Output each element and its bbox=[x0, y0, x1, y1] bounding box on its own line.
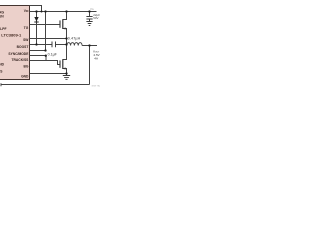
svg-text:PLLLPF: PLLLPF bbox=[0, 27, 6, 31]
transistor M2 source arrow bbox=[63, 67, 65, 69]
svg-text:RUN: RUN bbox=[0, 15, 4, 19]
capacitor CIN lead bbox=[89, 12, 91, 22]
svg-text:SW: SW bbox=[23, 38, 29, 42]
svg-text:BOOST: BOOST bbox=[17, 45, 29, 49]
svg-text:TG: TG bbox=[24, 26, 29, 30]
svg-text:SGND: SGND bbox=[0, 62, 5, 66]
wire M2 source to ground bbox=[63, 69, 67, 76]
wire bottom rail left end tick bbox=[0, 83, 2, 86]
svg-text:VIN: VIN bbox=[90, 7, 94, 11]
wire VIN pin to rail bbox=[30, 11, 37, 13]
wire TRACK/SS pin bbox=[30, 55, 47, 57]
transistor M1 channel bar bbox=[62, 19, 64, 29]
wire switch node vertical bbox=[63, 29, 67, 60]
svg-text:3809 TA01: 3809 TA01 bbox=[91, 85, 100, 88]
op-amp U1 LTC3809-1 controller IC body bbox=[0, 6, 30, 80]
svg-text:4A: 4A bbox=[94, 56, 98, 60]
capacitor CB boost plates bbox=[52, 42, 56, 48]
wire SYNC tie vertical to rail bbox=[45, 12, 47, 51]
svg-text:50V: 50V bbox=[93, 16, 98, 20]
wire ground bottom rail bbox=[1, 84, 90, 86]
svg-text:VIN: VIN bbox=[24, 9, 29, 13]
svg-text:SYNC/MODE: SYNC/MODE bbox=[8, 52, 29, 56]
diode D1 bbox=[34, 17, 38, 22]
wire GND pin to M2 source bbox=[30, 73, 67, 75]
inductor L1 bbox=[67, 43, 82, 46]
wire SYNC/MODE pin to VIN tie bbox=[30, 50, 46, 52]
wire M1 drain from rail bbox=[63, 12, 67, 20]
capacitor CIN plates bbox=[86, 17, 92, 20]
transistor M1 gate bar bbox=[59, 20, 61, 27]
wire diode branch vertical bbox=[36, 12, 38, 45]
ground symbol at M2 source bbox=[63, 76, 70, 80]
wire cap CB to switch node bbox=[56, 44, 67, 46]
node junction dots bbox=[35, 10, 90, 74]
wire BG pin to M2 gate jog bbox=[30, 61, 61, 65]
wire inductor output to VOUT bbox=[82, 45, 97, 47]
transistor M1 source arrow bbox=[63, 27, 65, 29]
wire TRACK tie vertical bbox=[45, 56, 47, 61]
svg-text:BG: BG bbox=[23, 64, 28, 68]
wire VIN top jog from IC corner bbox=[30, 6, 42, 12]
svg-text:LTC3809-1: LTC3809-1 bbox=[1, 32, 22, 37]
svg-text:GND: GND bbox=[21, 75, 29, 79]
svg-text:TRACK/SS: TRACK/SS bbox=[12, 58, 30, 62]
ground symbol at CIN bbox=[86, 22, 92, 26]
transistor M2 channel bar bbox=[62, 59, 64, 69]
svg-text:0.47µH: 0.47µH bbox=[68, 37, 81, 41]
wire VIN rail bbox=[37, 11, 97, 13]
wire TG pin to M1 gate bbox=[30, 24, 61, 26]
wire BOOST pin to cap CB bbox=[30, 44, 53, 46]
wire SW pin to switch node bbox=[30, 38, 67, 40]
transistor M2 gate bar bbox=[59, 60, 61, 67]
wire COUT/return vertical bbox=[89, 46, 91, 85]
svg-text:0.1µF: 0.1µF bbox=[48, 53, 58, 57]
